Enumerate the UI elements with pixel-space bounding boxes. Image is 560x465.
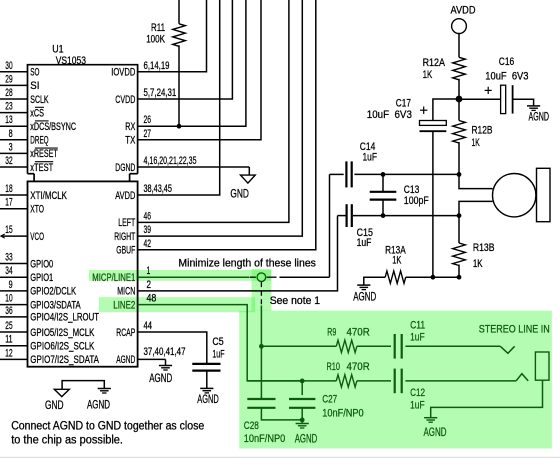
page divider line bbox=[0, 456, 560, 458]
wire MICN to C15 bbox=[138, 216, 338, 291]
wire C14 to mic junction bbox=[354, 173, 459, 175]
svg-text:26: 26 bbox=[144, 114, 152, 126]
svg-text:12: 12 bbox=[5, 347, 12, 359]
capacitor C5 bbox=[192, 363, 220, 365]
pin 13 xDCS/BSYNC bbox=[0, 125, 28, 127]
pin 32 xTEST bbox=[0, 166, 28, 168]
ground GND at DGND bbox=[241, 175, 256, 183]
wire IOVDD to top bbox=[138, 0, 207, 72]
svg-text:RCAP: RCAP bbox=[116, 327, 135, 339]
svg-text:XTI/MCLK: XTI/MCLK bbox=[30, 190, 67, 202]
svg-text:AGND: AGND bbox=[295, 432, 318, 446]
resistor R12B bbox=[458, 99, 460, 121]
ground AGND at chip bbox=[159, 365, 172, 367]
wire junction to C17 bbox=[433, 99, 459, 121]
wire R11 top bbox=[178, 0, 180, 24]
svg-text:34: 34 bbox=[5, 265, 12, 277]
resistor R9 bbox=[336, 340, 357, 352]
wire GBUF to top bbox=[138, 0, 316, 250]
wire C15 to mic junction bbox=[353, 215, 459, 217]
pin 34 GPIO1 bbox=[0, 276, 28, 278]
svg-text:25: 25 bbox=[5, 320, 12, 332]
svg-text:R10: R10 bbox=[327, 361, 341, 373]
svg-text:GPIO1: GPIO1 bbox=[30, 272, 53, 284]
pin 23 xCS bbox=[0, 112, 28, 114]
wire RX to top bbox=[138, 0, 246, 126]
svg-text:SCLK: SCLK bbox=[30, 94, 49, 106]
pin 11 GPIO6/I2S_SCLK bbox=[0, 345, 28, 347]
svg-text:AVDD: AVDD bbox=[451, 5, 476, 17]
svg-text:10uF 6V3: 10uF 6V3 bbox=[485, 70, 528, 82]
svg-text:xDCS/BSYNC: xDCS/BSYNC bbox=[30, 121, 76, 133]
svg-text:10nF/NP0: 10nF/NP0 bbox=[322, 408, 364, 420]
junction C15/C13 bbox=[381, 213, 386, 218]
svg-text:Connect AGND to GND together a: Connect AGND to GND together as close bbox=[11, 421, 204, 433]
svg-text:RIGHT: RIGHT bbox=[114, 231, 135, 243]
pin 36 GPIO4/I2S_LROUT bbox=[0, 316, 28, 318]
svg-text:29: 29 bbox=[5, 73, 12, 85]
svg-text:STEREO LINE IN: STEREO LINE IN bbox=[479, 323, 550, 335]
capacitor C28 bbox=[247, 398, 275, 400]
pin 29 SI bbox=[0, 84, 28, 86]
svg-text:36: 36 bbox=[5, 305, 12, 317]
svg-text:R9: R9 bbox=[327, 326, 336, 338]
svg-text:3: 3 bbox=[9, 141, 13, 153]
svg-text:GPIO4/I2S_LROUT: GPIO4/I2S_LROUT bbox=[30, 312, 99, 324]
wire MICP/LINE1 from chip bbox=[138, 276, 250, 278]
resistor R11 bbox=[173, 24, 186, 47]
junction R11/RX bbox=[177, 124, 182, 129]
svg-text:GPIO2/DCLK: GPIO2/DCLK bbox=[30, 286, 76, 298]
pin 18 XTI/MCLK bbox=[0, 194, 28, 196]
svg-text:33: 33 bbox=[5, 252, 12, 264]
wire MICP corner up to C14 bbox=[329, 174, 331, 277]
svg-text:28: 28 bbox=[5, 87, 12, 99]
capacitor C14 bbox=[345, 161, 347, 187]
svg-text:GBUF: GBUF bbox=[116, 245, 135, 257]
svg-text:23: 23 bbox=[5, 101, 12, 113]
wire AGND to R13A bbox=[364, 277, 385, 285]
wire R9 to C11 bbox=[357, 345, 391, 347]
svg-text:GPIO3/SDATA: GPIO3/SDATA bbox=[30, 299, 81, 311]
svg-text:GPIO0: GPIO0 bbox=[30, 258, 53, 270]
svg-text:100pF: 100pF bbox=[404, 195, 429, 207]
svg-text:R13B: R13B bbox=[473, 242, 495, 254]
svg-text:SI: SI bbox=[30, 80, 39, 92]
svg-text:LEFT: LEFT bbox=[118, 217, 135, 229]
wire C27 AGND stub bbox=[301, 420, 303, 424]
pin 25 GPIO5/I2S_MCLK bbox=[0, 331, 28, 333]
svg-text:9: 9 bbox=[9, 279, 13, 291]
svg-text:1K: 1K bbox=[423, 69, 433, 81]
svg-text:100K: 100K bbox=[146, 34, 165, 46]
wire C16 to AGND bbox=[513, 99, 534, 106]
pin 17 XTO bbox=[0, 208, 28, 210]
svg-text:6,14,19: 6,14,19 bbox=[144, 60, 170, 72]
wire AGND pin bbox=[138, 358, 166, 360]
svg-text:SO: SO bbox=[30, 67, 39, 79]
svg-text:R12A: R12A bbox=[423, 57, 446, 69]
svg-text:10uF 6V3: 10uF 6V3 bbox=[367, 109, 412, 121]
svg-text:15: 15 bbox=[5, 224, 12, 236]
wire RCAP to C5 bbox=[138, 332, 207, 363]
capacitor C12 bbox=[394, 369, 396, 394]
svg-text:GND: GND bbox=[45, 398, 64, 412]
wire R11 to RX line bbox=[178, 45, 180, 126]
svg-text:46: 46 bbox=[144, 210, 152, 222]
IC U1 VS1053 symbol box upper section bbox=[28, 65, 138, 174]
wire LINE2 from chip bbox=[138, 305, 303, 381]
svg-text:AGND: AGND bbox=[149, 371, 172, 385]
svg-text:AGND: AGND bbox=[424, 425, 447, 439]
svg-text:5,7,24,31: 5,7,24,31 bbox=[144, 87, 177, 99]
svg-text:VCO: VCO bbox=[30, 231, 44, 243]
svg-text:IOVDD: IOVDD bbox=[111, 67, 135, 79]
svg-text:TX: TX bbox=[125, 135, 135, 147]
wire CVDD to top bbox=[138, 0, 233, 99]
connector jack body bbox=[535, 352, 549, 380]
svg-text:17: 17 bbox=[5, 197, 12, 209]
junction C14/R12B bbox=[457, 172, 462, 177]
svg-text:44: 44 bbox=[144, 320, 153, 332]
svg-text:GND: GND bbox=[230, 187, 249, 201]
wire AVDD to R12A bbox=[458, 34, 460, 58]
ground GND symbol bbox=[54, 389, 69, 396]
svg-text:1K: 1K bbox=[392, 254, 402, 266]
wire C5 to AGND bbox=[206, 371, 208, 388]
wire R12A to junction bbox=[458, 79, 460, 99]
wire AVDD pin to top bbox=[138, 0, 220, 195]
capacitor C15 bbox=[346, 204, 348, 227]
wire mic upper lead bbox=[459, 174, 493, 188]
svg-text:C5: C5 bbox=[212, 336, 223, 348]
pin 3 xRESET bbox=[0, 152, 28, 154]
node mic bias junction bbox=[456, 96, 463, 103]
green highlight band MICP/LINE1 net bbox=[89, 270, 271, 281]
pin 10 GPIO3/SDATA bbox=[0, 304, 28, 306]
svg-text:37,40,41,47: 37,40,41,47 bbox=[144, 346, 186, 358]
wire jack sleeve to AGND bbox=[431, 380, 543, 418]
svg-text:1uF: 1uF bbox=[363, 151, 378, 163]
svg-text:1uF: 1uF bbox=[212, 348, 224, 360]
capacitor C17 bbox=[420, 121, 447, 126]
svg-text:GPIO6/I2S_SCLK: GPIO6/I2S_SCLK bbox=[30, 341, 95, 353]
svg-text:13: 13 bbox=[5, 114, 12, 126]
svg-text:MICN: MICN bbox=[117, 286, 135, 298]
svg-text:AGND: AGND bbox=[197, 392, 219, 406]
svg-text:38,43,45: 38,43,45 bbox=[144, 183, 172, 195]
capacitor C11 bbox=[394, 334, 396, 359]
svg-text:C27: C27 bbox=[322, 394, 337, 406]
svg-text:DGND: DGND bbox=[115, 162, 135, 174]
wire junction to C16 bbox=[459, 98, 501, 100]
svg-text:to the chip as possible.: to the chip as possible. bbox=[11, 435, 123, 447]
svg-text:8: 8 bbox=[9, 128, 13, 140]
wire C14 left lead bbox=[330, 173, 344, 175]
svg-text:1K: 1K bbox=[473, 258, 483, 270]
svg-text:RX: RX bbox=[125, 121, 135, 133]
svg-text:1K: 1K bbox=[472, 137, 481, 149]
svg-text:C17: C17 bbox=[396, 97, 411, 109]
svg-text:2: 2 bbox=[147, 279, 152, 291]
green highlight region stereo line-in network bbox=[239, 311, 552, 449]
node optional link circle (see note 1) bbox=[250, 276, 256, 278]
svg-text:MICP/LINE1: MICP/LINE1 bbox=[92, 272, 135, 284]
svg-text:U1: U1 bbox=[52, 44, 63, 56]
junction C27-C28/AGND bbox=[300, 418, 305, 423]
wire R13A to R13B bbox=[406, 276, 459, 278]
wire TX to top bbox=[138, 0, 261, 140]
junction C17/MICP line bbox=[431, 275, 436, 280]
svg-text:xTEST: xTEST bbox=[30, 162, 53, 174]
svg-text:AVDD: AVDD bbox=[115, 190, 135, 202]
resistor R13A bbox=[385, 271, 406, 283]
svg-text:1: 1 bbox=[147, 265, 151, 277]
svg-text:1uF: 1uF bbox=[357, 237, 372, 249]
wire GND-AGND tie bbox=[62, 381, 104, 390]
IC U1 VS1053 symbol box lower section bbox=[28, 181, 138, 366]
wire R12B to C14 line bbox=[458, 142, 460, 174]
svg-text:18: 18 bbox=[5, 183, 12, 195]
green highlight band LINE2 net bbox=[99, 297, 255, 312]
svg-text:R12B: R12B bbox=[472, 124, 493, 136]
wire note1 link to line-in net bbox=[260, 306, 262, 399]
wire R10 to C12 bbox=[357, 380, 391, 382]
svg-text:GPIO7/I2S_SDATA: GPIO7/I2S_SDATA bbox=[30, 354, 99, 366]
wire LEFT to top bbox=[138, 0, 289, 222]
capacitor C16 bbox=[501, 85, 506, 113]
pin 9 GPIO2/DCLK bbox=[0, 290, 28, 292]
wire R9 left lead bbox=[261, 345, 336, 347]
wire RIGHT to top bbox=[138, 0, 303, 236]
svg-text:xCS: xCS bbox=[30, 107, 44, 119]
svg-text:VS1053: VS1053 bbox=[56, 55, 86, 67]
svg-text:C28: C28 bbox=[244, 420, 259, 432]
ground AGND at C5 bbox=[200, 387, 213, 389]
svg-text:1uF: 1uF bbox=[410, 332, 425, 344]
wire C11 to jack bbox=[405, 345, 500, 347]
svg-text:42: 42 bbox=[144, 238, 152, 250]
microphone element bbox=[493, 174, 536, 217]
wire R10 left lead bbox=[247, 380, 336, 382]
svg-text:AGND: AGND bbox=[353, 290, 376, 304]
svg-text:11: 11 bbox=[5, 334, 12, 346]
pin 28 SCLK bbox=[0, 98, 28, 100]
svg-text:C16: C16 bbox=[499, 56, 514, 68]
wire note1 dashed vertical bbox=[260, 282, 262, 305]
svg-text:AGND: AGND bbox=[529, 109, 550, 123]
pin 12 GPIO7/I2S_SDATA bbox=[0, 358, 28, 360]
green highlight band note-1 vertical link bbox=[252, 269, 272, 311]
pin 30 SO bbox=[0, 71, 28, 73]
ground AGND at C16 bbox=[527, 105, 540, 107]
svg-text:Minimize length of these lines: Minimize length of these lines bbox=[178, 258, 316, 270]
svg-text:C12: C12 bbox=[410, 387, 425, 399]
jack ring contact bbox=[516, 374, 528, 381]
capacitor C13 bbox=[382, 174, 384, 191]
pin 8 DREQ bbox=[0, 139, 28, 141]
svg-text:32: 32 bbox=[5, 155, 12, 167]
ground AGND at C27 bbox=[296, 423, 309, 425]
junction note1/R9 line bbox=[259, 344, 264, 349]
svg-text:30: 30 bbox=[5, 60, 12, 72]
wire mic lower lead bbox=[459, 201, 493, 215]
svg-text:470R: 470R bbox=[347, 361, 370, 373]
junction LINE2/C27 bbox=[300, 379, 305, 384]
svg-text:DREQ: DREQ bbox=[30, 135, 49, 147]
svg-text:XTO: XTO bbox=[30, 204, 44, 216]
svg-text:CVDD: CVDD bbox=[115, 94, 135, 106]
resistor R13B bbox=[458, 216, 460, 243]
ground AGND symbol bbox=[98, 388, 111, 390]
svg-text:4,16,20,21,22,35: 4,16,20,21,22,35 bbox=[144, 155, 197, 167]
svg-text:10nF/NP0: 10nF/NP0 bbox=[244, 433, 285, 445]
pin 33 GPIO0 bbox=[0, 263, 28, 265]
svg-text:R11: R11 bbox=[151, 22, 165, 34]
svg-text:39: 39 bbox=[144, 224, 152, 236]
svg-text:27: 27 bbox=[144, 128, 152, 140]
wire DGND to GND bbox=[138, 166, 250, 168]
capacitor C27 bbox=[301, 381, 303, 395]
svg-text:xRESET: xRESET bbox=[30, 148, 58, 160]
svg-text:48: 48 bbox=[147, 293, 157, 305]
resistor R10 bbox=[336, 375, 357, 387]
junction C15/R13B bbox=[457, 213, 462, 218]
svg-text:LINE2: LINE2 bbox=[113, 299, 135, 311]
svg-text:1uF: 1uF bbox=[410, 399, 425, 411]
svg-text:See note 1: See note 1 bbox=[270, 295, 320, 307]
junction R13B/MICP line bbox=[457, 275, 462, 280]
svg-text:470R: 470R bbox=[347, 326, 370, 338]
pin 15 VCO bbox=[2, 235, 28, 237]
svg-text:AGND: AGND bbox=[116, 354, 135, 366]
ground AGND at jack bbox=[424, 417, 437, 419]
wire MICN corner to C15 bbox=[338, 215, 346, 217]
wire C12 to jack bbox=[405, 380, 516, 382]
svg-text:10: 10 bbox=[5, 293, 12, 305]
ground AGND at R13A bbox=[357, 284, 370, 286]
jack tip contact bbox=[500, 346, 514, 353]
svg-text:AGND: AGND bbox=[87, 398, 110, 412]
svg-text:C11: C11 bbox=[410, 320, 425, 332]
wire C17 down to MICP net bbox=[432, 132, 434, 277]
junction C14/C13 bbox=[381, 172, 386, 177]
svg-text:GPIO5/I2S_MCLK: GPIO5/I2S_MCLK bbox=[30, 327, 95, 339]
wire MICP dashed continues bbox=[280, 276, 330, 278]
resistor R12A bbox=[453, 57, 466, 80]
